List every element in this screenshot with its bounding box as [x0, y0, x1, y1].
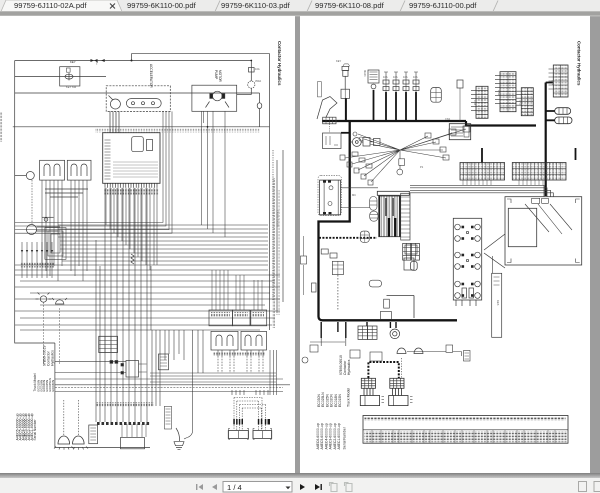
svg-text:CN1: CN1: [445, 117, 451, 121]
svg-text:CN4: CN4: [551, 80, 555, 86]
svg-text:Hydraulics: Hydraulics: [51, 350, 55, 366]
svg-text:99759-6K110-00.pdf: 99759-6K110-00.pdf: [127, 1, 197, 10]
svg-text:99759-6J110-00.pdf: 99759-6J110-00.pdf: [409, 1, 477, 10]
svg-text:RES: RES: [496, 300, 500, 306]
svg-text:KEY: KEY: [336, 59, 341, 63]
svg-text:EC015N: EC015N: [338, 394, 342, 407]
svg-text:CN3: CN3: [519, 100, 523, 106]
svg-text:1 / 4: 1 / 4: [227, 483, 242, 492]
svg-text:10A: 10A: [255, 67, 260, 71]
svg-text:Serial Number: Serial Number: [33, 419, 37, 441]
svg-text:MAIN: MAIN: [363, 70, 367, 77]
svg-text:PUMP: PUMP: [214, 70, 218, 79]
svg-text:10A: 10A: [413, 75, 418, 79]
svg-text:10A: 10A: [393, 75, 398, 79]
svg-text:EC030N: EC030N: [51, 380, 55, 392]
svg-text:Contactor Hydraulics: Contactor Hydraulics: [577, 41, 582, 86]
svg-text:MC: MC: [352, 193, 356, 197]
svg-text:99759-6K110-03.pdf: 99759-6K110-03.pdf: [221, 1, 291, 10]
svg-text:350A: 350A: [255, 79, 261, 83]
svg-text:B+: B+: [95, 62, 99, 66]
svg-text:Hydraulics: Hydraulics: [347, 359, 351, 375]
svg-text:Contactor Hydraulics: Contactor Hydraulics: [277, 41, 282, 86]
svg-text:KEY SW: KEY SW: [66, 85, 77, 89]
svg-text:ACCELERATOR: ACCELERATOR: [149, 64, 153, 88]
svg-text:CN101 CN102: CN101 CN102: [276, 210, 280, 227]
svg-text:KEY: KEY: [70, 60, 76, 64]
svg-text:P1: P1: [420, 165, 424, 169]
svg-text:CN2: CN2: [497, 90, 501, 96]
svg-text:10A: 10A: [383, 75, 388, 79]
svg-text:Truck Model: Truck Model: [347, 388, 351, 407]
svg-text:99759-6K110-08.pdf: 99759-6K110-08.pdf: [315, 1, 385, 10]
svg-text:Serial Number: Serial Number: [343, 426, 347, 449]
svg-text:10A: 10A: [403, 75, 408, 79]
svg-text:A4EC1-60000-up: A4EC1-60000-up: [337, 423, 341, 449]
svg-text:CN5: CN5: [473, 100, 477, 106]
svg-text:MOTOR: MOTOR: [218, 70, 222, 83]
svg-text:99759-6J110-02A.pdf: 99759-6J110-02A.pdf: [14, 1, 87, 10]
